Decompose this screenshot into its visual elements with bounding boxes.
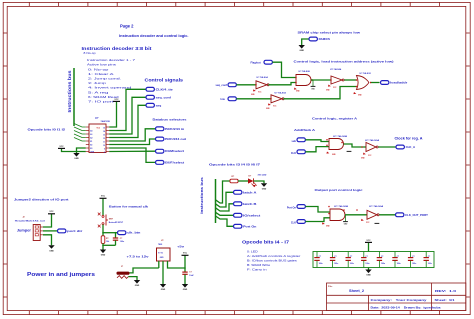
svg-text:latch B: latch B [243, 203, 257, 206]
svg-text:Port On: Port On [243, 225, 257, 228]
svg-text:Output port control logic: Output port control logic [315, 188, 363, 192]
svg-text:Opcode bits I4 - I7: Opcode bits I4 - I7 [242, 240, 290, 245]
svg-text:Button for manual clk: Button for manual clk [109, 205, 148, 209]
svg-text:Instruction decoder 3:8 bit: Instruction decoder 3:8 bit [82, 46, 153, 51]
svg-text:REV: 1.0: REV: 1.0 [435, 289, 457, 293]
svg-text:U? 74LS08: U? 74LS08 [333, 135, 348, 138]
svg-text:5: A reg: 5: A reg [88, 90, 110, 94]
svg-text:C?: C? [381, 256, 383, 258]
svg-text:RAM/CS: RAM/CS [319, 38, 331, 41]
svg-text:Databus selectors: Databus selectors [153, 118, 187, 122]
svg-text:ButtonSP-SPST: ButtonSP-SPST [109, 221, 124, 224]
svg-text:Date: 2023-09-14 Drawn By:: Date: 2023-09-14 Drawn By: igorskuba [371, 306, 442, 310]
svg-text:C?: C? [428, 256, 430, 258]
svg-text:Sheet: 1/1: Sheet: 1/1 [435, 298, 456, 302]
svg-text:U? 74LS32: U? 74LS32 [360, 72, 372, 75]
svg-text:Jumper: Jumper [17, 229, 32, 233]
svg-text:seq_conf: seq_conf [156, 96, 171, 99]
svg-text:IO/select: IO/select [243, 214, 260, 217]
svg-text:GND: GND [135, 285, 140, 287]
svg-text:SRAM chip select pin always lo: SRAM chip select pin always low [298, 30, 362, 34]
svg-text:Flag/out: Flag/out [251, 60, 261, 64]
svg-text:GND: GND [161, 289, 166, 291]
svg-text:12: 12 [103, 138, 105, 140]
svg-text:C?: C? [350, 256, 352, 258]
svg-text:GND: GND [101, 255, 106, 257]
svg-text:C?: C? [319, 256, 321, 258]
svg-text:C?: C? [334, 256, 336, 258]
svg-text:CLK: CLK [291, 152, 296, 155]
svg-text:U? 74LS04: U? 74LS04 [275, 91, 287, 94]
svg-text:+7.5 to 12v: +7.5 to 12v [127, 254, 149, 258]
svg-text:0: No-op: 0: No-op [88, 67, 110, 71]
svg-text:Port On: Port On [287, 207, 297, 210]
svg-text:11: 11 [103, 141, 105, 143]
svg-text:A0: A0 [90, 129, 92, 132]
svg-text:sub: sub [292, 140, 297, 143]
svg-text:100n: 100n [334, 263, 338, 265]
svg-text:Opcode bits I0 I1 I2: Opcode bits I0 I1 I2 [28, 128, 66, 132]
svg-text:Instruction decoder 1 - 7: Instruction decoder 1 - 7 [87, 58, 136, 62]
svg-text:Company: Your Company: Company: Your Company [371, 298, 428, 302]
svg-text:100n: 100n [365, 263, 369, 265]
svg-text:100n: 100n [319, 263, 323, 265]
svg-text:B: SRAM Write: B: SRAM Write [247, 263, 271, 267]
svg-text:+5v: +5v [177, 245, 184, 249]
svg-text:VCC: VCC [183, 253, 188, 255]
svg-text:8: 8 [104, 152, 105, 154]
svg-text:CLK/4_tie: CLK/4_tie [156, 88, 174, 91]
svg-text:U? 74LS08: U? 74LS08 [334, 205, 349, 208]
svg-text:GND: GND [183, 289, 188, 291]
svg-text:Sheet_2: Sheet_2 [349, 289, 364, 293]
svg-text:100n: 100n [397, 263, 401, 265]
svg-text:Jumper2 direction of IO port: Jumper2 direction of IO port [14, 198, 69, 202]
svg-text:BUF/244 out: BUF/244 out [165, 138, 186, 141]
svg-text:7: IO port: 7: IO port [88, 100, 114, 104]
svg-text:VI VO: VI VO [158, 253, 164, 255]
svg-text:VCC: VCC [114, 99, 119, 101]
svg-text:C?: C? [397, 256, 399, 258]
svg-text:3: Jump: 3: Jump [88, 81, 107, 85]
svg-text:A2: A2 [90, 136, 92, 139]
svg-text:VCC: VCC [49, 211, 54, 213]
svg-text:C?: C? [365, 256, 367, 258]
svg-text:A1: A1 [90, 133, 92, 136]
svg-text:14: 14 [103, 130, 105, 133]
svg-text:VCC: VCC [366, 240, 371, 242]
svg-text:15: 15 [103, 127, 105, 129]
svg-text:VCC: VCC [101, 196, 106, 198]
svg-text:GND: GND [262, 189, 267, 191]
svg-text:VCC: VCC [59, 146, 64, 148]
svg-text:clk_btn: clk_btn [127, 232, 141, 235]
svg-text:U? 74LS04: U? 74LS04 [330, 68, 342, 71]
svg-text:Power in and jumpers: Power in and jumpers [27, 272, 95, 278]
svg-text:13: 13 [103, 134, 105, 136]
svg-text:U? 74LS08: U? 74LS08 [299, 70, 311, 73]
svg-text:A: Add/Sub controls A register: A: Add/Sub controls A register [247, 254, 301, 258]
svg-text:Control signals: Control signals [145, 77, 184, 82]
svg-text:100n: 100n [428, 263, 432, 265]
svg-text:BUF/select: BUF/select [165, 161, 184, 164]
svg-text:Instructions bus: Instructions bus [67, 70, 72, 113]
svg-text:F: Carry in: F: Carry in [247, 268, 267, 272]
svg-text:2: Jump cond.: 2: Jump cond. [88, 77, 122, 81]
svg-text:8 No-op: 8 No-op [84, 51, 97, 55]
svg-text:seq_conf: seq_conf [216, 83, 228, 87]
svg-text:1: Clear A: 1: Clear A [88, 72, 114, 76]
svg-text:Page 2: Page 2 [120, 24, 134, 29]
svg-text:Clock for reg. A: Clock for reg. A [395, 137, 424, 141]
svg-text:CLK_A: CLK_A [406, 146, 416, 149]
svg-text:Add/Sub A: Add/Sub A [294, 128, 316, 132]
svg-text:Control logic, load instructio: Control logic, load instruction address … [294, 60, 394, 64]
svg-text:HeaderMale1X3_io3: HeaderMale1X3_io3 [15, 221, 45, 223]
svg-text:GND: GND [74, 158, 79, 160]
svg-text:E2: E2 [90, 144, 92, 146]
svg-text:Instructions bus: Instructions bus [199, 176, 204, 213]
svg-text:Instruction decoder and contro: Instruction decoder and control logic. [119, 33, 189, 38]
svg-text:seq: seq [156, 104, 162, 107]
svg-text:U? 74LS04: U? 74LS04 [257, 76, 269, 79]
svg-text:Active low pins: Active low pins [87, 63, 117, 67]
svg-text:0: LED: 0: LED [247, 249, 258, 253]
svg-text:latch A: latch A [243, 191, 257, 194]
svg-text:U? 74LS04: U? 74LS04 [365, 139, 380, 142]
svg-text:74HC238: 74HC238 [101, 120, 111, 123]
svg-text:E1: E1 [90, 141, 92, 143]
svg-text:GND: GND [49, 250, 54, 252]
svg-text:Opcode bits I3 I4 I5 I6 I7: Opcode bits I3 I4 I5 I6 I7 [209, 162, 261, 166]
svg-text:U? 74LS04: U? 74LS04 [369, 205, 384, 208]
svg-text:BUF/244 in: BUF/244 in [165, 128, 185, 131]
svg-text:7805: 7805 [158, 244, 162, 246]
svg-text:RAM/select: RAM/select [165, 150, 184, 153]
svg-text:100n: 100n [350, 263, 354, 265]
svg-text:J2: J2 [23, 217, 25, 219]
svg-text:9: 9 [104, 148, 105, 150]
svg-text:port dir: port dir [67, 230, 82, 233]
svg-text:100n: 100n [412, 263, 416, 265]
svg-text:GND: GND [366, 275, 371, 277]
svg-text:100n: 100n [381, 263, 385, 265]
svg-text:F.Sc:: F.Sc: [328, 286, 333, 288]
svg-text:10: 10 [103, 145, 105, 147]
svg-text:U?: U? [95, 116, 99, 120]
svg-text:B: IO/bus controls BUS gates: B: IO/bus controls BUS gates [247, 259, 298, 263]
svg-text:GND: GND [299, 50, 304, 52]
svg-text:E3: E3 [90, 148, 92, 150]
svg-text:Control logic, register A: Control logic, register A [312, 117, 358, 121]
svg-text:CLK: CLK [291, 222, 296, 225]
svg-text:C?: C? [412, 256, 414, 258]
svg-text:load/addr: load/addr [390, 82, 407, 85]
svg-text:3V3 LED: 3V3 LED [258, 174, 267, 176]
svg-text:CLK_OUT_PORT: CLK_OUT_PORT [405, 215, 429, 217]
